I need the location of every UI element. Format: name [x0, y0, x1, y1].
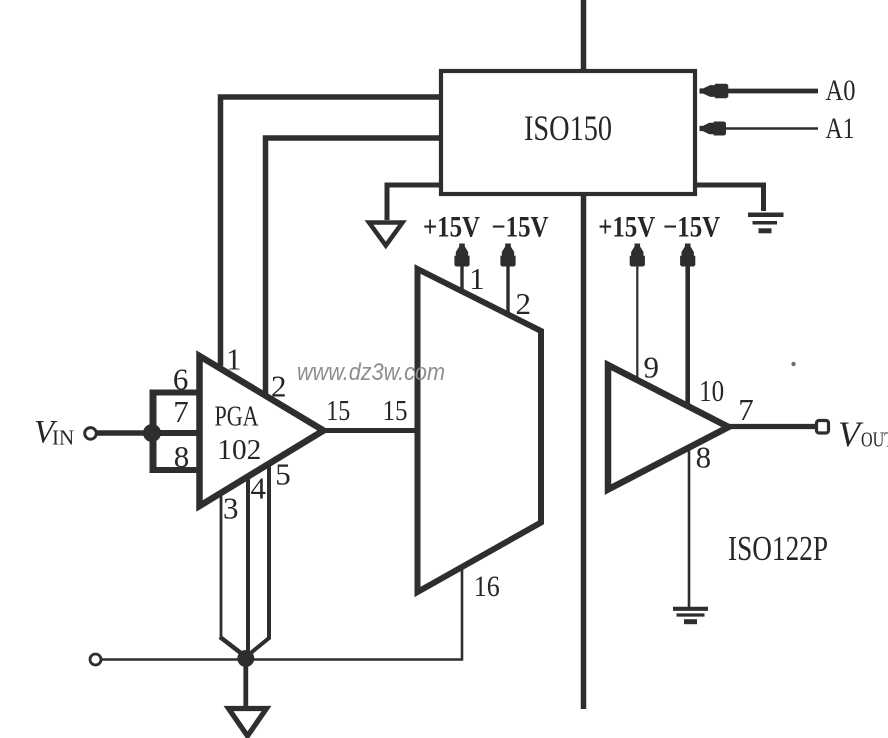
svg-text:1: 1 — [469, 261, 485, 296]
svg-text:15: 15 — [326, 396, 350, 427]
svg-text:ISO122P: ISO122P — [728, 529, 828, 568]
svg-text:3: 3 — [223, 491, 239, 526]
svg-text:IN: IN — [52, 426, 74, 450]
svg-text:ISO150: ISO150 — [524, 108, 612, 148]
svg-text:9: 9 — [643, 349, 659, 384]
svg-text:2: 2 — [515, 286, 531, 321]
svg-text:www.dz3w.com: www.dz3w.com — [297, 359, 445, 386]
svg-text:OUT: OUT — [861, 428, 888, 452]
svg-text:A0: A0 — [826, 74, 856, 107]
svg-text:15: 15 — [383, 396, 408, 427]
svg-text:8: 8 — [174, 439, 190, 474]
svg-text:16: 16 — [474, 570, 500, 603]
svg-text:102: 102 — [217, 434, 261, 466]
svg-text:6: 6 — [173, 362, 189, 397]
svg-text:A1: A1 — [826, 112, 855, 145]
svg-text:10: 10 — [699, 373, 724, 408]
svg-text:1: 1 — [226, 342, 242, 377]
svg-text:7: 7 — [738, 392, 754, 427]
svg-text:8: 8 — [696, 439, 712, 474]
svg-text:−15V: −15V — [663, 211, 720, 244]
svg-text:4: 4 — [250, 470, 266, 505]
svg-text:PGA: PGA — [215, 402, 260, 433]
svg-text:7: 7 — [173, 394, 189, 429]
svg-text:−15V: −15V — [492, 211, 549, 244]
svg-text:+15V: +15V — [598, 211, 655, 244]
svg-text:+15V: +15V — [423, 211, 480, 244]
svg-text:2: 2 — [271, 369, 287, 404]
svg-text:5: 5 — [275, 457, 291, 492]
